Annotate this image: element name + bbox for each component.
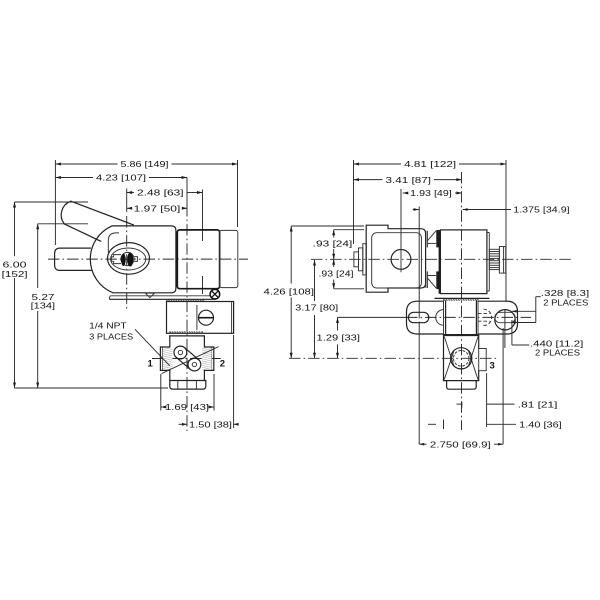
keylock inner oval xyxy=(111,248,146,270)
svg-text:1.40 [36]: 1.40 [36] xyxy=(519,420,562,430)
linkage strap xyxy=(176,357,190,369)
svg-text:1.375 [34.9]: 1.375 [34.9] xyxy=(513,205,569,215)
hidden boss arcs xyxy=(436,310,444,326)
port 3 body xyxy=(444,335,479,337)
dimension 4.81 [122] xyxy=(354,163,402,165)
leader .440 xyxy=(511,320,513,345)
svg-text:2 PLACES: 2 PLACES xyxy=(535,347,580,357)
valve center column xyxy=(443,301,445,335)
svg-text:.81 [21]: .81 [21] xyxy=(518,399,558,409)
handle lever xyxy=(61,201,71,224)
orientation triangle marker xyxy=(145,293,154,297)
hex stem xyxy=(55,248,91,270)
dimension 6.00 [152] xyxy=(14,202,16,256)
gasket hatch under coil xyxy=(444,299,479,301)
extension line x=126.7 short tick for dims xyxy=(126,189,128,213)
yoke bars xyxy=(425,231,427,248)
centerline horizontal stem axis xyxy=(48,258,248,260)
port 2 (right) xyxy=(204,346,213,348)
leader line NPT xyxy=(135,329,170,366)
svg-text:3.17 [80]: 3.17 [80] xyxy=(295,302,338,312)
svg-text:2: 2 xyxy=(220,359,225,370)
mounting bracket right part xyxy=(478,301,518,334)
extension line x=237.5 xyxy=(237,160,239,227)
dimension 1.93 [49] xyxy=(403,192,407,194)
centerline horizontal bracket slots xyxy=(406,316,531,318)
bottom boss xyxy=(447,381,477,390)
svg-text:1.29 [33]: 1.29 [33] xyxy=(317,332,361,342)
port 1 (left) xyxy=(160,346,169,348)
DIN connector housing xyxy=(366,225,425,292)
svg-text:.93 [24]: .93 [24] xyxy=(313,238,353,248)
centerline vertical valve stem xyxy=(186,178,188,207)
svg-text:1.93 [49]: 1.93 [49] xyxy=(410,188,452,198)
flow path diagonal xyxy=(162,347,219,374)
extension line x=506 right slot xyxy=(505,160,507,302)
svg-text:3: 3 xyxy=(490,360,495,371)
key left tab xyxy=(111,255,121,264)
key right tab xyxy=(134,257,137,262)
mounting bracket left part xyxy=(407,301,444,334)
body inner face corner line xyxy=(108,233,119,253)
dimension 2.48 [63] xyxy=(127,192,134,194)
dimension 5.86 [149] xyxy=(55,163,117,165)
svg-text:4.23 [107]: 4.23 [107] xyxy=(96,173,146,183)
connector housing (side) xyxy=(220,230,238,287)
dimension 1.97 [50] xyxy=(127,207,131,209)
svg-text:.93 [24]: .93 [24] xyxy=(319,269,354,279)
dimension 2.750 [69.9] xyxy=(418,322,420,445)
dimension 4.23 [107] xyxy=(55,177,93,179)
dimension 1.40 [36] xyxy=(428,423,436,425)
extension line x=486.6 xyxy=(486,373,488,427)
gasket hatch top xyxy=(167,300,204,302)
svg-text:5.86 [149]: 5.86 [149] xyxy=(121,159,169,169)
svg-text:2.750 [69.9]: 2.750 [69.9] xyxy=(430,439,491,449)
key black blades xyxy=(121,254,126,266)
bracket slot left xyxy=(408,312,428,322)
key cylinder circle xyxy=(121,252,134,265)
bonnet screw xyxy=(199,310,214,325)
bonnet block xyxy=(167,302,234,334)
dimension 1.375 [34.9] xyxy=(413,209,419,211)
dimension 1.69 [43] xyxy=(161,406,162,408)
svg-text:.328 [8.3]: .328 [8.3] xyxy=(541,288,589,298)
linkage hole upper xyxy=(174,346,187,359)
svg-text:1.50 [38]: 1.50 [38] xyxy=(189,420,232,430)
svg-text:[152]: [152] xyxy=(2,269,28,279)
connector center circle xyxy=(391,250,411,270)
connector front panel xyxy=(372,233,422,288)
dimension .93 [24] upper xyxy=(333,230,335,238)
dimension 3.41 [87] xyxy=(354,179,383,181)
port 3 circles xyxy=(451,348,472,369)
port3 corner tangent webs xyxy=(444,337,454,366)
extension line x=402.8 (connector center) xyxy=(400,189,402,248)
valve body (side view) xyxy=(90,226,176,293)
centerline horizontal ports 1-2 xyxy=(152,358,224,360)
extension lines bottom left view xyxy=(160,374,162,411)
svg-text:1.69 [43]: 1.69 [43] xyxy=(165,402,209,412)
svg-text:1.97 [50]: 1.97 [50] xyxy=(134,204,181,214)
mounting plate edge xyxy=(110,298,216,300)
extension line x=55.4 xyxy=(54,160,56,245)
extension line x=202.5 xyxy=(202,190,204,242)
linkage hole lower xyxy=(188,358,201,371)
valve body column xyxy=(170,335,205,337)
dimension 5.27 [134] xyxy=(37,224,39,288)
svg-text:3 PLACES: 3 PLACES xyxy=(89,331,133,341)
gasket hatch bottom xyxy=(169,331,202,333)
centerline vertical keyhole xyxy=(126,216,128,309)
centerline horizontal coil axis xyxy=(311,258,573,260)
conduit terminal block xyxy=(489,249,499,269)
bracket slot right with washer circle xyxy=(495,310,515,330)
coil body xyxy=(439,230,441,294)
phillips screw xyxy=(210,289,220,299)
port 3 side boss xyxy=(479,349,487,371)
leader .328 xyxy=(536,296,541,298)
terminal screw stack xyxy=(354,252,359,267)
yoke diagonals xyxy=(427,231,436,241)
dimension 3.17 [80] xyxy=(314,260,316,301)
bottom hex nut xyxy=(170,381,206,390)
extension line x=353.5 xyxy=(353,160,355,244)
dimension .81 [21] xyxy=(457,403,463,405)
centerline horizontal port3 xyxy=(289,357,497,359)
coil bottom flange xyxy=(435,297,489,299)
dimension 1.29 [33] xyxy=(337,317,339,330)
svg-text:2 PLACES: 2 PLACES xyxy=(543,298,588,308)
svg-text:2.48 [63]: 2.48 [63] xyxy=(137,188,184,198)
keylock outer oval xyxy=(108,243,150,275)
centerline vertical valve axis xyxy=(461,172,463,430)
svg-text:4.26 [108]: 4.26 [108] xyxy=(264,287,315,297)
svg-text:1: 1 xyxy=(148,358,154,369)
svg-text:3.41 [87]: 3.41 [87] xyxy=(386,175,432,185)
dimension .93 [24] lower xyxy=(333,259,335,267)
svg-text:1/4 NPT: 1/4 NPT xyxy=(89,321,127,331)
svg-text:6.00: 6.00 xyxy=(3,259,27,269)
svg-text:4.81 [122]: 4.81 [122] xyxy=(404,159,456,169)
dimension 4.26 [108] xyxy=(290,226,292,284)
dimension 1.50 [38] xyxy=(179,423,188,425)
svg-text:[134]: [134] xyxy=(31,300,55,310)
extension line x=419.3 left slot xyxy=(418,207,420,319)
solenoid coil block xyxy=(177,230,219,289)
